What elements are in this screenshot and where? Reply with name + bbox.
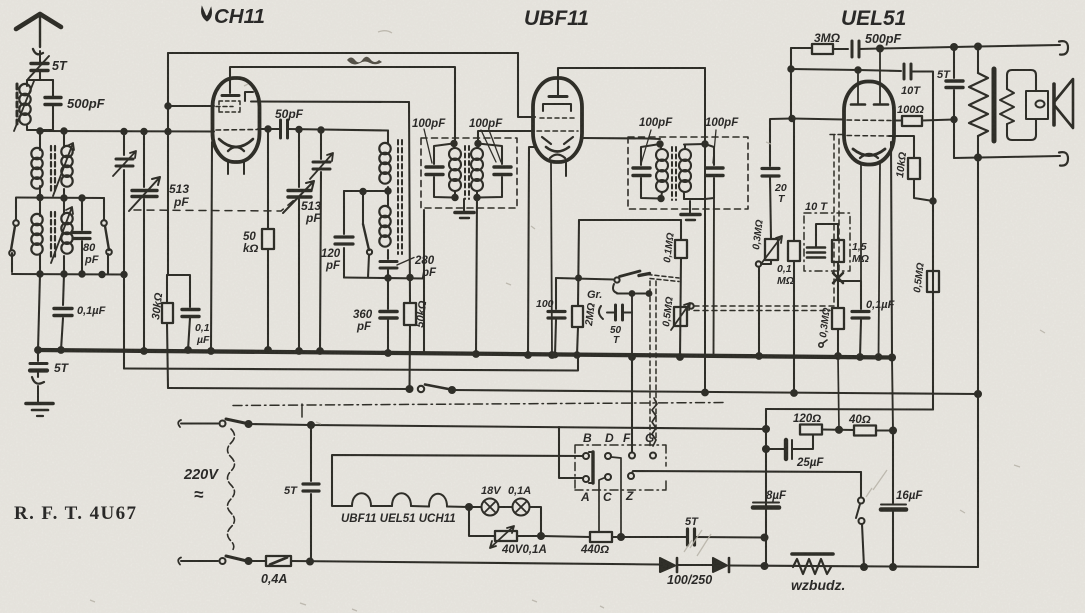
switch Gr. phono bbox=[556, 278, 614, 280]
IF2 secondary capacitor 100pF bbox=[705, 144, 714, 199]
wire: top feedback line y48 bbox=[791, 47, 812, 49]
wire: Z to switch line y471 bbox=[632, 471, 861, 473]
AVC dashed pair from volume pot wiper bbox=[694, 306, 834, 311]
wire: right rail x978 bbox=[977, 158, 979, 395]
wire: y46 top line to speaker terminal bbox=[954, 45, 1060, 47]
resistor 2MOhm bbox=[572, 306, 583, 327]
capacitor 10T bbox=[904, 64, 911, 79]
wire: UBF11 anode to IF2 bbox=[582, 138, 660, 139]
transformer T1 primary bbox=[39, 131, 41, 197]
wire: grid line y106 into tube bbox=[168, 105, 214, 107]
AVC dashed pair down to plug G bbox=[650, 281, 656, 447]
tuning gang dashed link bbox=[134, 200, 294, 211]
capacitor 50pF bbox=[281, 120, 288, 138]
UCH11 cathode bbox=[219, 139, 253, 147]
IF1 secondary capacitor 100pF bbox=[477, 144, 502, 198]
resistor 0.3MOhm bbox=[832, 308, 844, 329]
wire: grid row y131 bbox=[40, 130, 214, 133]
wire: switch pole to coupling node bbox=[617, 292, 651, 294]
variable capacitor 513pF no.2 bbox=[298, 130, 300, 352]
IF1 core bbox=[465, 146, 469, 199]
scribble mark bbox=[347, 57, 382, 65]
trimmer arrow through L1 bbox=[14, 81, 34, 131]
trimmer arrow through T2 secondary bbox=[51, 207, 73, 263]
antenna bbox=[16, 14, 61, 29]
UEL51 cathode bbox=[853, 149, 885, 156]
ground IF2 bbox=[689, 201, 691, 213]
wire: anode line y67 to IF1 bbox=[230, 67, 455, 141]
resistor 40V 0.1A ballast bbox=[469, 507, 495, 536]
band switch left bbox=[12, 198, 16, 272]
wire: grid2 line y69 bbox=[791, 69, 901, 71]
capacitor 50T AF coupling bbox=[616, 305, 623, 320]
plug panel letters wiring bbox=[559, 427, 583, 478]
label pointers bbox=[641, 130, 651, 164]
wire: row y197 bbox=[16, 196, 104, 199]
wire: IF1 secondary top to UBF11 grid bbox=[478, 131, 534, 144]
UEL51 heater legs bbox=[860, 164, 862, 281]
capacitor 5T ripple bbox=[688, 529, 695, 545]
node bbox=[407, 386, 413, 392]
wire: x40 down to bus bbox=[38, 274, 40, 350]
wire: heater return line y369 bbox=[124, 356, 578, 371]
T1 core bbox=[51, 146, 55, 192]
wire: osc tap y191 bbox=[344, 190, 388, 192]
AVC dashed pair to diode load bbox=[648, 275, 679, 282]
wire: x167 long vertical (y53 to y388) bbox=[167, 53, 168, 388]
plug terminal G bbox=[650, 453, 656, 459]
wire: x839 bbox=[838, 356, 839, 430]
wire: x892 anode feed down bbox=[892, 358, 893, 431]
output transformer secondary winding bbox=[1000, 89, 1014, 124]
wire: B+ line y388 bbox=[168, 388, 409, 389]
potentiometer 0.3MOhm bbox=[765, 239, 778, 260]
IF2 secondary coil bbox=[679, 149, 691, 192]
core of L1 bbox=[16, 84, 19, 124]
electrolytic 16uF bbox=[892, 431, 894, 568]
UBF11 grid dashes bbox=[540, 117, 576, 119]
core of osc coils bbox=[398, 140, 402, 254]
antenna tank circuit: coil L1 bbox=[27, 72, 53, 131]
pilot lamp 18V bbox=[469, 506, 482, 508]
plug terminal C bbox=[605, 474, 611, 480]
speaker cone bbox=[1055, 79, 1073, 128]
UBF11 heater legs bbox=[551, 162, 552, 355]
UEL51 grid electrodes bbox=[851, 103, 888, 106]
resistor 3MOhm bbox=[812, 44, 833, 54]
resistor 10kOhm bbox=[908, 158, 920, 179]
T2 core bbox=[51, 212, 55, 260]
wire: UEL51 grid1 line y119 bbox=[792, 119, 844, 120]
wire: top line y53 bbox=[168, 52, 518, 54]
chassis dash-dot boundary line bbox=[233, 403, 725, 406]
wire: row y274 bbox=[12, 273, 124, 276]
oscillator coil L4 bbox=[379, 206, 390, 247]
output transformer core bbox=[992, 69, 997, 141]
capacitor 500pF tank bbox=[52, 80, 54, 130]
resistor 0.5MOhm bbox=[927, 271, 939, 292]
wire: switched mains to heater line bbox=[249, 424, 767, 429]
field coil wzbudz bbox=[793, 559, 831, 574]
standby switch bbox=[860, 472, 862, 497]
wire: C down bbox=[599, 478, 605, 533]
wire: x518 from y53 to diode plate bbox=[518, 53, 535, 117]
UBF11 anode plate bbox=[549, 95, 567, 98]
trimmer arrow through T1 secondary bbox=[53, 143, 74, 196]
mains switch top bbox=[220, 421, 226, 427]
UBF11 diode plates bbox=[542, 137, 573, 144]
tube UCH11 envelope bbox=[213, 78, 260, 162]
ground IF1 bbox=[463, 199, 465, 211]
trimmer capacitor osc bbox=[320, 130, 321, 351]
resistor 0.1MOhm bbox=[680, 220, 681, 357]
capacitor 20T bbox=[762, 169, 779, 177]
wire: y409 from speaker network bbox=[766, 408, 933, 411]
wire: UEL51 anode down right bbox=[891, 142, 892, 358]
IF2 primary coil bbox=[656, 149, 668, 192]
plug terminal F bbox=[629, 453, 635, 459]
transformer T2 secondary bbox=[63, 198, 65, 274]
ground bbox=[26, 402, 53, 406]
plug terminal B bbox=[583, 453, 589, 459]
wire: x705 grid line through IF2 down to B+ line bbox=[704, 68, 706, 392]
IF1 primary capacitor 100pF bbox=[434, 144, 453, 198]
wire: UBF11 left diode return to bus bbox=[528, 147, 535, 355]
wire: IF1 secondary bottom to bus bbox=[476, 198, 477, 355]
potentiometer 0.5MOhm volume bbox=[674, 307, 687, 326]
wire: B+ line continues to right rail bbox=[452, 390, 978, 394]
resistor 40Ohm bbox=[854, 426, 876, 436]
oscillator coil L3 bbox=[387, 131, 389, 144]
capacitor 5T to ground bbox=[37, 350, 39, 377]
IF transformer 2 shield box bbox=[628, 137, 748, 209]
UCH11 grid dashes bbox=[216, 129, 257, 132]
rectifier diodes 100/250 bbox=[660, 558, 675, 572]
band switch osc bbox=[362, 192, 364, 224]
UCH11 triode anode bracket bbox=[245, 92, 253, 101]
tube UBF11 envelope bbox=[533, 78, 582, 162]
band switch right bbox=[104, 198, 108, 274]
box 10T tone bbox=[804, 213, 850, 271]
wire: speaker bottom line y158 bbox=[954, 156, 1060, 158]
wire: diode load line y220 bbox=[579, 219, 681, 221]
plug panel dash-dot box bbox=[575, 445, 666, 490]
capacitor 5T line filter bbox=[310, 425, 312, 562]
plug terminal D bbox=[605, 453, 611, 459]
resistor 100Ohm bbox=[894, 119, 902, 121]
UCH11 anode plate bbox=[222, 94, 239, 97]
wire: mixer output line y129 bbox=[258, 129, 388, 131]
voice coil loop bbox=[1007, 70, 1036, 140]
IF1 secondary coil bbox=[471, 148, 483, 191]
mains cable squiggle bbox=[228, 429, 235, 551]
IF2 core bbox=[672, 147, 676, 200]
stray mark bbox=[819, 343, 823, 347]
IF1 primary coil bbox=[449, 148, 461, 191]
resistor 0.1MOhm grid bbox=[793, 119, 795, 393]
resistor 50kOhm grid leak bbox=[267, 129, 269, 350]
capacitor 120pF padder bbox=[343, 191, 345, 278]
heater UCH11 bbox=[429, 494, 447, 507]
transformer T1 secondary bbox=[63, 131, 65, 197]
plug terminal Z bbox=[628, 473, 634, 479]
wire: oscillator anode line y102 bbox=[251, 100, 409, 103]
capacitor 0.1uF no.2 bbox=[167, 275, 190, 350]
capacitor 100 phono input bbox=[555, 278, 556, 355]
resistor 30kOhm bbox=[162, 303, 173, 323]
wire: x424 to bus bbox=[423, 210, 425, 352]
resistor 440Ohm bbox=[590, 532, 612, 542]
capacitor 5T antenna bbox=[31, 64, 48, 71]
node on right rail bbox=[975, 391, 981, 397]
wire: right rail bottom bbox=[977, 394, 979, 567]
heater UEL51 bbox=[392, 493, 411, 506]
wire: UBF11 grid cap lead to IF2 bbox=[558, 68, 705, 95]
capacitor 80pF bbox=[81, 198, 83, 274]
UCH11 heater legs bbox=[228, 160, 244, 174]
wire: x632 to plug F bbox=[631, 357, 633, 452]
trimmer capacitor in 10T box bbox=[807, 248, 825, 258]
fuse 0.4A bbox=[266, 556, 291, 566]
speaker magnet bar bbox=[1052, 84, 1056, 125]
resistor 120Ohm bbox=[800, 425, 822, 435]
UCH11 internal screen box bbox=[219, 101, 240, 112]
IF2 primary capacitor 100pF bbox=[641, 144, 660, 199]
transformer T2 primary bbox=[39, 198, 41, 275]
wire: IF2 secondary branch to bus bbox=[713, 198, 716, 355]
tube UEL51 envelope bbox=[844, 82, 894, 165]
resistor 50kOhm osc anode bbox=[409, 102, 410, 389]
capacitor 360pF bbox=[387, 278, 389, 353]
heater chain loop bbox=[311, 425, 583, 506]
UBF11 screen bracket bbox=[543, 104, 571, 111]
wire: x791 down bbox=[790, 48, 792, 119]
label pointer bbox=[424, 129, 432, 163]
capacitor 0.1uF cathode bbox=[838, 281, 861, 357]
plug terminal A bbox=[583, 476, 589, 482]
wire: UCH11 cathode to bus bbox=[211, 142, 212, 351]
mains lead bottom bbox=[181, 560, 218, 562]
capacitor 0.1uF left bbox=[61, 274, 64, 350]
wire: x765 filter chain bbox=[765, 409, 767, 566]
speaker terminal curl bottom bbox=[1059, 152, 1068, 166]
pilot lamp 0.1A bbox=[513, 499, 530, 516]
variable capacitor 513pF no.1 bbox=[143, 132, 145, 352]
wire: main ground bus bbox=[37, 350, 892, 358]
voice coil box bbox=[1026, 91, 1048, 119]
mains lead top bbox=[181, 422, 218, 424]
shorting link B-A bbox=[591, 452, 594, 483]
output transformer primary winding bbox=[977, 47, 979, 74]
IF transformer 1 shield box bbox=[421, 138, 517, 208]
wire: x124 grid feed down to y369 bbox=[123, 132, 125, 369]
trimmer capacitor 280pF bbox=[380, 262, 397, 269]
capacitor 5T output bbox=[953, 47, 955, 158]
resistor 1.5MOhm bbox=[837, 224, 839, 307]
wire: osc cathode row y278 bbox=[344, 278, 424, 279]
wire: UEL51 screen line y135 to 10kOhm bbox=[847, 135, 889, 138]
UBF11 cathode bbox=[546, 147, 569, 152]
wire: bottom rail bbox=[291, 561, 660, 565]
heater UBF11 bbox=[352, 493, 371, 506]
capacitor 500pF feedback bbox=[852, 41, 859, 57]
speaker terminal curl top bbox=[1059, 41, 1068, 55]
mains switch bottom bbox=[220, 558, 226, 564]
switch S2 on B+ line bbox=[418, 386, 424, 392]
electrolytic 25uF bbox=[766, 448, 784, 450]
wire: y47 to output transformer bbox=[880, 47, 954, 49]
electrolytic 8uF bbox=[753, 502, 779, 504]
wire: D to 440 line bbox=[611, 457, 621, 537]
trimmer capacitor on x124 bbox=[116, 159, 133, 166]
node bbox=[37, 128, 42, 133]
wire: 20T branch bbox=[770, 119, 792, 167]
